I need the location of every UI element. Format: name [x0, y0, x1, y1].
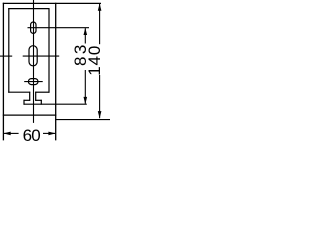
dimension 140 lower arrowhead	[98, 111, 102, 118]
T-notch left step	[24, 99, 31, 101]
dimension 83 line lower segment	[84, 70, 86, 104]
dimension 83 line upper segment	[84, 28, 86, 43]
T-notch neck right wall	[35, 92, 37, 101]
top hole horizontal centerline / 83 top extension line	[28, 27, 90, 29]
T-notch right step	[35, 99, 42, 101]
inner boss bottom shoulder right segment	[35, 91, 49, 93]
T-notch right outer wall	[40, 100, 42, 105]
svg-text:140: 140	[85, 45, 104, 76]
small top slot hole	[31, 22, 36, 33]
horizontal centerline left segment	[0, 55, 12, 57]
vertical centerline	[33, 0, 35, 123]
T-notch left outer wall	[23, 100, 25, 105]
inner boss bottom shoulder left segment	[8, 91, 30, 93]
dimension 60 line left segment	[4, 132, 19, 134]
large middle slot hole	[29, 46, 37, 66]
inner boss right edge	[48, 8, 50, 93]
dimension 83 upper arrowhead	[84, 28, 88, 35]
outer plate top edge / 140 top extension line	[3, 2, 101, 4]
dimension 140 line lower segment	[99, 75, 101, 118]
dimension 83 lower arrowhead	[84, 97, 88, 104]
inner boss left edge	[8, 8, 10, 93]
outer plate left edge / 60 left extension line	[2, 3, 4, 141]
background	[0, 0, 110, 150]
dimension 140 upper arrowhead	[98, 3, 102, 10]
T-notch neck left wall	[29, 92, 31, 101]
dimension 140 line upper segment	[99, 4, 101, 44]
dimension 60 right arrowhead	[48, 132, 55, 136]
dimension 60 line right segment	[43, 132, 55, 134]
dimension 60 left arrowhead	[3, 132, 10, 136]
T-notch bottom / 83 bottom extension line	[24, 103, 87, 105]
svg-text:60: 60	[23, 126, 41, 145]
bottom screw slot hole	[28, 79, 38, 85]
bottom hole horizontal centerline	[24, 81, 43, 83]
outer plate bottom edge	[3, 114, 57, 116]
inner boss top edge	[8, 8, 49, 10]
outer plate right edge / 60 right extension line	[55, 3, 57, 141]
140 bottom extension line	[55, 119, 110, 121]
horizontal centerline right segment	[23, 55, 60, 57]
